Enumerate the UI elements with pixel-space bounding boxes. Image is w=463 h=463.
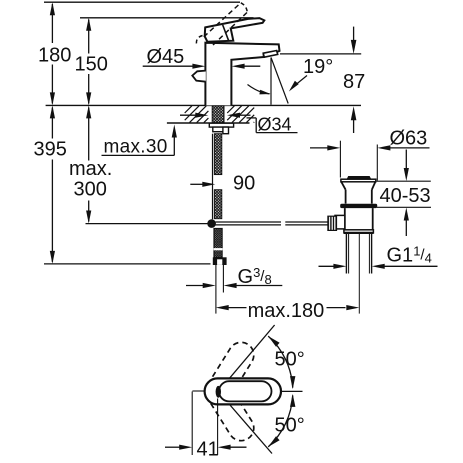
node: threaded shank through deck bbox=[212, 106, 224, 123]
node: 50 deg angle arc lower bbox=[268, 395, 293, 447]
svg-text:max.180: max.180 bbox=[248, 300, 325, 322]
node: washer under deck bbox=[209, 123, 233, 127]
node: dimension 87 arrows bbox=[353, 27, 355, 42]
svg-text:300: 300 bbox=[74, 179, 107, 201]
wire: mounting deck top surface line bbox=[46, 104, 361, 106]
node: dimension max.180 bbox=[216, 305, 229, 310]
wire: horizontal pop-up rod (double line, with break) bbox=[216, 221, 282, 223]
svg-text:50°: 50° bbox=[275, 349, 305, 371]
wire: extension lines below nut bbox=[215, 265, 217, 314]
svg-text:395: 395 bbox=[34, 139, 67, 161]
node: waste bottom flange bbox=[344, 230, 374, 233]
wire: top extension line (180 top, raised lever) bbox=[44, 1, 240, 3]
wire: tailpipe centerline bbox=[358, 234, 360, 314]
wire: 41 extension lines bbox=[191, 392, 193, 456]
wire: extension line at 395 bottom (hose end level) bbox=[44, 263, 211, 265]
node: dimension 40-53 bbox=[377, 180, 431, 182]
node: label Ø34 with stepped leader bbox=[247, 117, 257, 119]
wire: radial line 50 deg down bbox=[218, 392, 272, 454]
node: threaded rod upper section bbox=[214, 134, 222, 175]
node: dimension G3/8 with arrows and label bbox=[186, 285, 205, 287]
node: handle swung 50 deg down (dashed) bbox=[201, 374, 259, 445]
wire: centerline to the right bbox=[281, 390, 303, 392]
node: dimension 395 vertical line with arrows bbox=[51, 108, 53, 139]
wire: extension line spout outlet level bbox=[280, 53, 361, 55]
svg-text:87: 87 bbox=[343, 71, 365, 93]
node: dimension 41 bbox=[165, 446, 181, 448]
node: pivot junction dot bbox=[207, 219, 216, 228]
svg-text:50°: 50° bbox=[275, 415, 305, 437]
wire: extension line 150 top (lever tip level) bbox=[80, 17, 254, 19]
node: dimension G1 1/4 bbox=[319, 265, 336, 267]
node: cartridge axis dot bbox=[216, 386, 221, 398]
svg-text:19°: 19° bbox=[303, 56, 333, 78]
node: raised lever handle (dashed) bbox=[204, 3, 241, 37]
svg-text:max.: max. bbox=[69, 158, 112, 180]
svg-text:Ø45: Ø45 bbox=[147, 46, 185, 68]
node: side port for pop-up rod bbox=[335, 215, 345, 229]
node: tailpipe with G1 1/4 thread bbox=[345, 234, 347, 274]
node: handle plan view inner outline bbox=[219, 381, 272, 401]
node: dimension 150 vertical line with arrows bbox=[88, 20, 90, 54]
node: Ø34 hole arrows bbox=[180, 114, 197, 116]
node: 90 arrow and label bbox=[190, 183, 204, 185]
svg-text:40-53: 40-53 bbox=[380, 185, 431, 207]
node: mounting nut bbox=[213, 127, 229, 132]
node: waste upper body taper bbox=[341, 182, 345, 190]
node: aerator at spout tip bbox=[263, 51, 278, 58]
node: dimension Ø63 arrows and label bbox=[310, 147, 329, 149]
node: waste lower body bbox=[344, 208, 346, 230]
node: O-ring seal (black band) bbox=[340, 204, 377, 208]
node: G3/8 connection nut bbox=[213, 257, 227, 265]
wire: max.300 extension line to rod bbox=[86, 223, 208, 225]
node: lever handle (side view, solid) bbox=[205, 18, 265, 42]
node: 19 deg angle arc with arrow bbox=[248, 85, 270, 94]
node: flexible hose lower section bbox=[214, 190, 222, 219]
node: dimension 180 vertical line with arrows bbox=[51, 4, 53, 43]
svg-text:max.30: max.30 bbox=[104, 136, 168, 157]
wire: water stream line 19 deg bbox=[271, 58, 288, 104]
node: faucet body outline bbox=[205, 43, 279, 106]
svg-text:150: 150 bbox=[75, 54, 108, 76]
svg-text:90: 90 bbox=[233, 173, 255, 195]
wire: tick at handle nose bbox=[192, 390, 204, 392]
wire: pull rod line bbox=[212, 134, 214, 220]
svg-text:41: 41 bbox=[197, 439, 219, 461]
wire: vertical reference line from aerator to deck bbox=[270, 58, 272, 105]
svg-text:Ø34: Ø34 bbox=[258, 114, 292, 134]
node: waste plug cap bbox=[347, 176, 372, 179]
svg-text:Ø63: Ø63 bbox=[390, 127, 428, 149]
node: knurled adjustment knob bbox=[328, 216, 337, 230]
wire: mounting deck bottom line bbox=[167, 122, 250, 124]
wire: radial line 50 deg up bbox=[218, 325, 274, 392]
node: deck cross-section hatching bbox=[185, 106, 192, 113]
node: lever front tip below body bbox=[192, 71, 206, 82]
node: dimension max.300 vertical line with arrows bbox=[88, 108, 90, 161]
svg-text:180: 180 bbox=[38, 45, 71, 67]
node: handle plan view outer outline bbox=[205, 378, 281, 404]
node: 50 deg angle arc upper bbox=[268, 336, 293, 388]
wire: Ø63 extension lines bbox=[339, 141, 341, 178]
node: handle swung 50 deg up (dashed) bbox=[201, 338, 259, 409]
